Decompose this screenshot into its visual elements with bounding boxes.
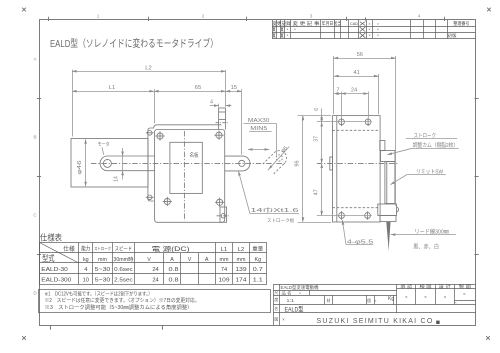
svg-text:品 名: 品 名 (282, 290, 292, 296)
svg-text:A: A (33, 57, 37, 62)
svg-text:1:1: 1:1 (287, 298, 295, 303)
svg-text:ストローク板: ストローク板 (267, 217, 295, 224)
svg-text:14巾Xt1.6: 14巾Xt1.6 (251, 207, 299, 214)
svg-text:5~30: 5~30 (95, 277, 111, 283)
svg-text:24: 24 (152, 267, 158, 273)
svg-text:×: × (287, 28, 289, 32)
svg-text:×: × (369, 34, 371, 38)
svg-text:2.5sec: 2.5sec (114, 277, 133, 283)
svg-text:黒、赤、白: 黒、赤、白 (413, 243, 439, 251)
svg-text:EALD-300: EALD-300 (41, 277, 71, 283)
svg-text:担当: 担当 (334, 20, 340, 27)
svg-text:型式: 型式 (42, 253, 55, 263)
svg-text:変更記録: 変更記録 (272, 20, 291, 27)
svg-text:4: 4 (84, 267, 87, 273)
svg-text:承 認: 承 認 (400, 283, 412, 290)
svg-text:φ46: φ46 (77, 161, 83, 175)
svg-text:L1: L1 (221, 247, 227, 253)
svg-text:139: 139 (236, 267, 247, 273)
svg-text:初版: 初版 (448, 32, 458, 39)
svg-text:電 源(DC): 電 源(DC) (152, 244, 190, 253)
svg-text:×: × (369, 28, 371, 32)
svg-text:×: × (424, 295, 427, 300)
svg-text:0.7: 0.7 (253, 267, 263, 273)
svg-text:mm: mm (237, 257, 246, 263)
svg-text:EALD型（ソレノイドに変わるモータドライブ）: EALD型（ソレノイドに変わるモータドライブ） (50, 37, 218, 50)
svg-text:A: A (205, 257, 209, 263)
svg-text:スピード: スピード (115, 246, 133, 252)
svg-text:仕様表: 仕様表 (40, 233, 62, 243)
svg-text:×: × (377, 34, 379, 38)
svg-text:0.8: 0.8 (169, 267, 179, 273)
svg-text:×: × (294, 28, 296, 32)
svg-text:ストローク: ストローク (94, 246, 111, 252)
svg-text:6: 6 (314, 108, 320, 111)
svg-text:L2: L2 (145, 65, 151, 71)
svg-text:7: 7 (336, 87, 339, 93)
svg-text:×: × (405, 295, 408, 300)
svg-text:設 計: 設 計 (439, 283, 451, 290)
svg-text:×: × (463, 292, 466, 297)
svg-text:重量: 重量 (252, 245, 263, 252)
svg-text:1.1: 1.1 (253, 277, 263, 283)
svg-text:Kg: Kg (388, 296, 394, 302)
svg-text:材: 材 (327, 298, 331, 303)
svg-text:図: 図 (274, 318, 278, 322)
svg-text:96: 96 (295, 160, 301, 166)
svg-text:15: 15 (231, 85, 237, 91)
svg-text:mm: mm (220, 257, 229, 263)
svg-text:×: × (377, 22, 379, 26)
svg-text:B: B (33, 135, 36, 140)
svg-text:整理番号: 整理番号 (453, 20, 470, 27)
svg-text:×: × (369, 22, 371, 26)
svg-text:名: 名 (274, 306, 278, 311)
svg-text:174: 174 (236, 277, 247, 283)
svg-text:個: 個 (367, 298, 371, 303)
svg-text:65: 65 (195, 85, 201, 91)
svg-text:14: 14 (114, 176, 120, 182)
svg-text:30mm時: 30mm時 (113, 257, 133, 263)
svg-text:尺: 尺 (274, 291, 278, 295)
svg-text:仕様: 仕様 (63, 245, 75, 253)
svg-text:MIN5: MIN5 (250, 126, 267, 132)
svg-text:kg: kg (83, 257, 89, 263)
svg-text:4: 4 (418, 13, 421, 18)
svg-text:V: V (188, 257, 192, 263)
svg-text:41: 41 (353, 70, 359, 76)
svg-text:EALD-30: EALD-30 (41, 267, 67, 273)
svg-text:×: × (444, 295, 447, 300)
svg-text:A: A (170, 257, 174, 263)
svg-text:名板: 名板 (190, 151, 199, 159)
svg-text:5~30: 5~30 (95, 267, 111, 273)
svg-text:mm: mm (98, 257, 107, 263)
svg-text:2: 2 (202, 13, 205, 18)
svg-text:×: × (287, 34, 289, 38)
svg-text:0.8: 0.8 (169, 277, 179, 283)
svg-text:※2 スピードは任意に変更できます。（オプション）※7日の変: ※2 スピードは任意に変更できます。（オプション）※7日の変更対応。 (45, 297, 200, 304)
svg-text:SUZUKI SEIMITU KIKAI CO: SUZUKI SEIMITU KIKAI CO (317, 318, 434, 325)
svg-text:1: 1 (97, 13, 100, 18)
svg-text:度: 度 (274, 297, 278, 302)
svg-text:24: 24 (351, 87, 357, 93)
svg-text:モータ: モータ (98, 141, 110, 148)
svg-text:製 図: 製 図 (459, 283, 471, 290)
svg-text:74: 74 (221, 267, 227, 273)
svg-text:×: × (282, 317, 285, 322)
svg-text:C: C (33, 213, 37, 218)
svg-text:能力: 能力 (81, 245, 90, 253)
svg-text:47: 47 (313, 189, 319, 195)
svg-text:※1 DC12Vも可能です。（スピードは2割下がります。）: ※1 DC12Vも可能です。（スピードは2割下がります。） (45, 290, 153, 297)
svg-text:EALD型: EALD型 (285, 304, 304, 313)
svg-text:検 図: 検 図 (420, 283, 432, 290)
svg-text:×: × (299, 292, 301, 296)
svg-text:V: V (147, 257, 151, 263)
svg-text:調整カム（樹脂2枚）: 調整カム（樹脂2枚） (413, 141, 459, 149)
svg-text:L2: L2 (238, 247, 244, 253)
svg-text:×: × (377, 28, 379, 32)
svg-text:L1: L1 (109, 85, 115, 91)
svg-text:※3 ストローク調整可能（5~30㎜調整カムによる角度調整）: ※3 ストローク調整可能（5~30㎜調整カムによる角度調整） (45, 304, 193, 311)
svg-text:3: 3 (310, 13, 313, 18)
svg-text:CAD: CAD (350, 22, 358, 26)
svg-text:φ6: φ6 (280, 145, 289, 154)
svg-text:変 更 記 事: 変 更 記 事 (293, 20, 321, 27)
svg-text:×: × (455, 301, 457, 305)
svg-text:D: D (33, 291, 37, 296)
svg-text:0.6sec: 0.6sec (114, 267, 133, 273)
svg-text:10: 10 (83, 277, 89, 283)
svg-text:4: 4 (210, 100, 213, 106)
svg-text:Kg: Kg (255, 257, 262, 263)
svg-text:56: 56 (357, 52, 363, 58)
svg-text:37: 37 (313, 136, 319, 142)
svg-text:×: × (375, 299, 377, 303)
svg-text:年月日: 年月日 (322, 20, 334, 27)
svg-text:24: 24 (152, 277, 158, 283)
svg-text:109: 109 (219, 277, 230, 283)
